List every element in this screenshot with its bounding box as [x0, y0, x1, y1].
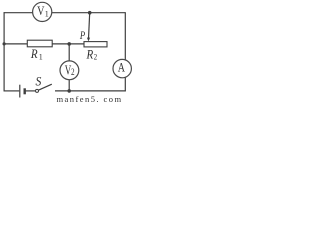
svg-text:1: 1 [39, 53, 43, 62]
svg-text:R: R [30, 47, 38, 61]
svg-text:manfen5. com: manfen5. com [57, 94, 123, 103]
svg-text:S: S [36, 74, 42, 88]
battery: long positive plate [19, 85, 21, 98]
wire: middle branch through R1 [4, 43, 84, 45]
junction dot: top node at wiper [88, 11, 92, 15]
wire: switch to right corner segment [55, 90, 126, 92]
junction dot: R1 / R2 / V2 node [67, 42, 71, 46]
voltmeter V1 [33, 2, 52, 21]
resistor R2 (rheostat) body [84, 42, 107, 47]
svg-text:1: 1 [45, 10, 49, 19]
wire: top horizontal [4, 12, 126, 14]
resistor R1 body [27, 40, 52, 47]
voltmeter V2 [60, 61, 79, 80]
ammeter A [113, 59, 131, 77]
background [0, 0, 137, 103]
svg-text:R: R [86, 48, 94, 62]
switch S pivot [36, 89, 39, 92]
switch S blade [38, 84, 51, 90]
battery: short negative plate [24, 88, 26, 94]
arrowhead of wiper P [87, 38, 90, 42]
junction dot: V2 bottom node [67, 89, 71, 93]
svg-text:2: 2 [94, 52, 98, 62]
wire: V2 vertical branch [68, 44, 70, 91]
wire: right vertical edge [124, 12, 126, 91]
svg-text:2: 2 [71, 67, 75, 77]
junction dot: left edge / R1 branch [3, 42, 6, 45]
wire: battery to switch segment [26, 90, 36, 92]
svg-text:P: P [79, 30, 86, 43]
wire: rheostat wiper from top junction [89, 13, 90, 39]
svg-text:A: A [118, 61, 126, 74]
wire: bottom left segment (battery lead) [4, 90, 20, 92]
wire: left vertical edge [3, 12, 5, 91]
